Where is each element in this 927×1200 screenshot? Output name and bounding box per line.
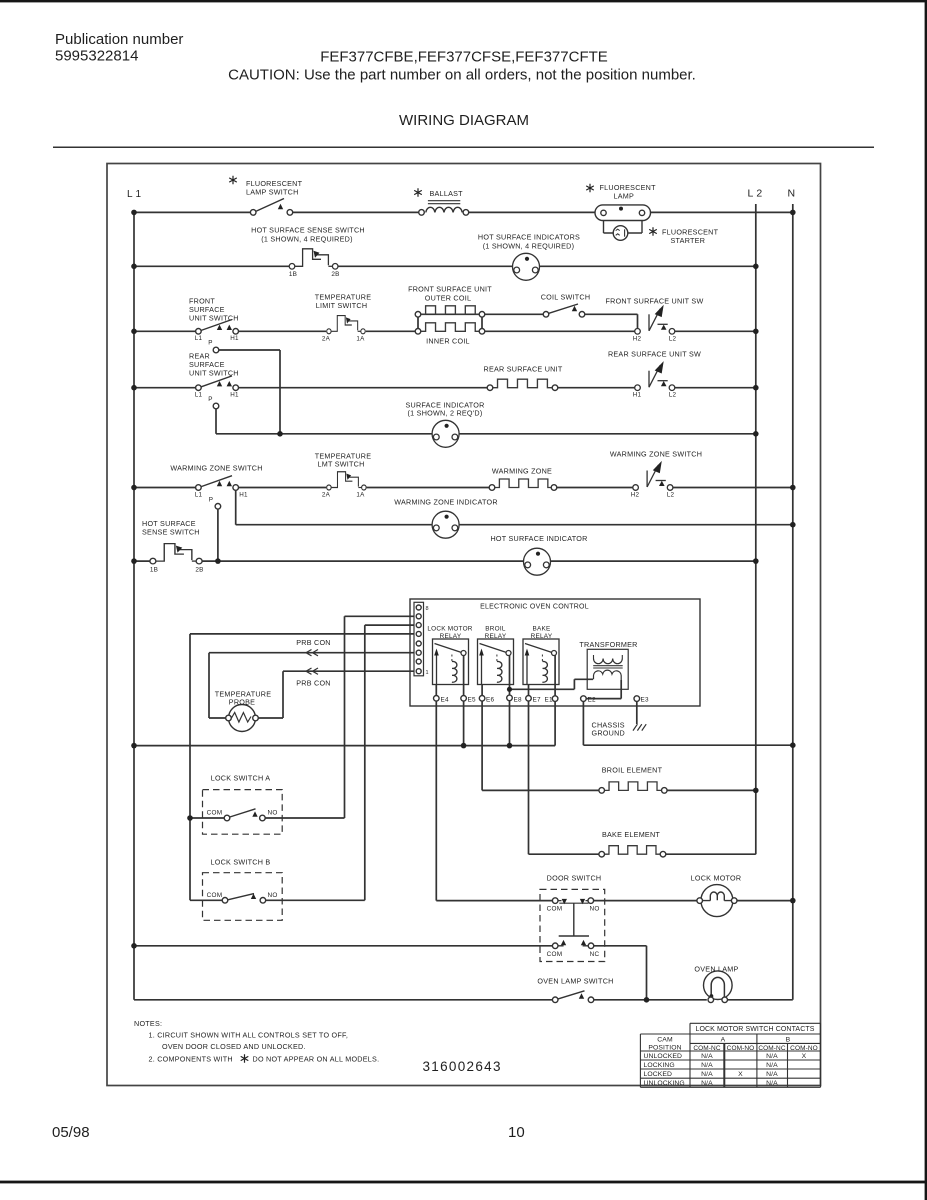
svg-text:LOCK SWITCH A: LOCK SWITCH A — [211, 774, 271, 783]
svg-text:BROIL ELEMENT: BROIL ELEMENT — [602, 766, 663, 775]
svg-text:COIL SWITCH: COIL SWITCH — [541, 293, 591, 302]
svg-text:L 1: L 1 — [127, 189, 141, 200]
svg-text:N/A: N/A — [701, 1053, 713, 1060]
svg-text:REAR SURFACE UNIT: REAR SURFACE UNIT — [484, 365, 563, 374]
svg-text:E8: E8 — [514, 697, 523, 704]
svg-text:E7: E7 — [533, 697, 542, 704]
svg-text:N/A: N/A — [766, 1053, 778, 1060]
svg-text:E3: E3 — [641, 697, 650, 704]
svg-text:RELAY: RELAY — [531, 633, 553, 640]
svg-text:2. COMPONENTS WITH: 2. COMPONENTS WITH — [149, 1055, 233, 1064]
svg-text:OVEN LAMP: OVEN LAMP — [694, 965, 738, 974]
svg-text:UNLOCKING: UNLOCKING — [644, 1080, 685, 1087]
svg-text:COM: COM — [547, 951, 563, 958]
svg-text:NOTES:: NOTES: — [134, 1019, 162, 1028]
svg-text:WARMING ZONE: WARMING ZONE — [492, 467, 552, 476]
svg-text:B: B — [786, 1037, 791, 1044]
svg-text:LIMIT SWITCH: LIMIT SWITCH — [316, 301, 368, 310]
svg-text:WARMING ZONE INDICATOR: WARMING ZONE INDICATOR — [394, 498, 498, 507]
svg-text:PRB CON: PRB CON — [296, 638, 331, 647]
svg-text:OVEN LAMP SWITCH: OVEN LAMP SWITCH — [537, 977, 613, 986]
svg-text:1A: 1A — [356, 492, 365, 499]
svg-text:LMT SWITCH: LMT SWITCH — [317, 460, 364, 469]
svg-text:P: P — [208, 340, 212, 347]
svg-text:BROIL: BROIL — [485, 626, 506, 633]
svg-text:L 2: L 2 — [748, 188, 763, 200]
svg-text:UNIT SWITCH: UNIT SWITCH — [189, 369, 239, 378]
svg-text:LOCK MOTOR: LOCK MOTOR — [691, 874, 742, 883]
svg-text:CAUTION: Use the part number: CAUTION: Use the part number on all orde… — [228, 67, 696, 84]
svg-text:NO: NO — [589, 906, 599, 913]
svg-text:L1: L1 — [195, 492, 203, 499]
svg-text:COM-NC: COM-NC — [693, 1045, 721, 1052]
svg-text:LOCK MOTOR SWITCH CONTACTS: LOCK MOTOR SWITCH CONTACTS — [695, 1026, 814, 1033]
svg-text:INNER COIL: INNER COIL — [426, 337, 470, 346]
svg-text:1B: 1B — [289, 271, 297, 278]
svg-text:L1: L1 — [195, 392, 203, 399]
svg-text:UNIT SWITCH: UNIT SWITCH — [189, 314, 239, 323]
svg-text:H1: H1 — [633, 392, 642, 399]
svg-text:COM: COM — [207, 892, 223, 899]
svg-text:H1: H1 — [239, 492, 248, 499]
svg-text:WARMING ZONE SWITCH: WARMING ZONE SWITCH — [170, 464, 262, 473]
svg-text:DOOR SWITCH: DOOR SWITCH — [547, 874, 602, 883]
svg-text:OUTER COIL: OUTER COIL — [425, 294, 471, 303]
svg-text:BAKE: BAKE — [532, 626, 550, 633]
svg-text:NO: NO — [267, 810, 277, 817]
svg-text:COM: COM — [547, 906, 563, 913]
svg-text:GROUND: GROUND — [592, 729, 625, 738]
svg-text:(1 SHOWN, 2 REQ'D): (1 SHOWN, 2 REQ'D) — [408, 409, 483, 418]
svg-text:PRB CON: PRB CON — [296, 679, 331, 688]
svg-text:X: X — [802, 1053, 807, 1060]
svg-text:N/A: N/A — [766, 1071, 778, 1078]
svg-text:OVEN DOOR CLOSED AND UNLOCKED.: OVEN DOOR CLOSED AND UNLOCKED. — [162, 1042, 306, 1051]
svg-text:H2: H2 — [633, 336, 642, 343]
svg-text:REAR SURFACE UNIT SW: REAR SURFACE UNIT SW — [608, 350, 701, 359]
svg-text:(1 SHOWN, 4 REQUIRED): (1 SHOWN, 4 REQUIRED) — [261, 235, 353, 244]
svg-text:P: P — [208, 396, 212, 403]
svg-text:E2: E2 — [588, 697, 597, 704]
svg-text:E1: E1 — [545, 697, 554, 704]
svg-text:HOT SURFACE INDICATOR: HOT SURFACE INDICATOR — [490, 534, 587, 543]
svg-text:HOT SURFACE SENSE SWITCH: HOT SURFACE SENSE SWITCH — [251, 226, 365, 235]
svg-text:PROBE: PROBE — [229, 698, 255, 707]
svg-text:BALLAST: BALLAST — [430, 189, 464, 198]
svg-text:BAKE ELEMENT: BAKE ELEMENT — [602, 830, 660, 839]
svg-text:LOCKED: LOCKED — [644, 1071, 673, 1078]
svg-text:LOCK SWITCH B: LOCK SWITCH B — [211, 858, 271, 867]
svg-text:E5: E5 — [468, 697, 477, 704]
svg-text:RELAY: RELAY — [440, 633, 462, 640]
svg-text:N/A: N/A — [701, 1071, 713, 1078]
svg-text:(1 SHOWN, 4 REQUIRED): (1 SHOWN, 4 REQUIRED) — [483, 242, 575, 251]
svg-text:TRANSFORMER: TRANSFORMER — [579, 640, 637, 649]
svg-text:E4: E4 — [441, 697, 450, 704]
svg-text:CAM: CAM — [657, 1037, 673, 1044]
svg-text:COM-NC: COM-NC — [758, 1045, 786, 1052]
svg-text:COM-NO: COM-NO — [727, 1045, 755, 1052]
svg-text:STARTER: STARTER — [671, 236, 706, 245]
svg-text:NO: NO — [267, 892, 277, 899]
svg-text:FRONT SURFACE UNIT SW: FRONT SURFACE UNIT SW — [605, 297, 703, 306]
svg-text:DO NOT APPEAR ON ALL MODELS.: DO NOT APPEAR ON ALL MODELS. — [253, 1055, 380, 1064]
svg-text:X: X — [738, 1071, 743, 1078]
svg-text:LOCKING: LOCKING — [644, 1062, 675, 1069]
svg-text:5995322814: 5995322814 — [55, 48, 138, 65]
svg-text:FRONT SURFACE UNIT: FRONT SURFACE UNIT — [408, 285, 492, 294]
svg-text:WIRING DIAGRAM: WIRING DIAGRAM — [399, 112, 529, 129]
svg-text:N/A: N/A — [766, 1080, 778, 1087]
svg-text:N/A: N/A — [766, 1062, 778, 1069]
svg-text:H2: H2 — [631, 492, 640, 499]
svg-text:L2: L2 — [669, 336, 677, 343]
svg-text:LAMP: LAMP — [614, 192, 635, 201]
svg-text:1A: 1A — [356, 336, 365, 343]
svg-text:2B: 2B — [331, 271, 339, 278]
svg-text:10: 10 — [508, 1124, 525, 1141]
svg-text:RELAY: RELAY — [485, 633, 507, 640]
svg-text:Publication number: Publication number — [55, 31, 183, 48]
svg-text:N/A: N/A — [701, 1080, 713, 1087]
svg-text:P: P — [209, 497, 213, 504]
svg-text:05/98: 05/98 — [52, 1124, 90, 1141]
svg-text:A: A — [721, 1037, 726, 1044]
svg-text:N/A: N/A — [701, 1062, 713, 1069]
svg-text:E6: E6 — [486, 697, 495, 704]
svg-text:L1: L1 — [195, 335, 203, 342]
svg-text:2A: 2A — [322, 336, 331, 343]
svg-text:LAMP SWITCH: LAMP SWITCH — [246, 188, 299, 197]
svg-text:2B: 2B — [195, 567, 203, 574]
svg-text:WARMING ZONE SWITCH: WARMING ZONE SWITCH — [610, 450, 702, 459]
svg-text:1: 1 — [426, 670, 429, 676]
svg-text:FEF377CFBE,FEF377CFSE,FEF377CF: FEF377CFBE,FEF377CFSE,FEF377CFTE — [320, 49, 608, 66]
svg-text:UNLOCKED: UNLOCKED — [644, 1053, 683, 1060]
svg-text:H1: H1 — [230, 335, 239, 342]
svg-text:COM-NO: COM-NO — [790, 1045, 818, 1052]
svg-text:1. CIRCUIT SHOWN WITH ALL CONT: 1. CIRCUIT SHOWN WITH ALL CONTROLS SET T… — [149, 1031, 349, 1040]
svg-text:8: 8 — [426, 606, 429, 612]
svg-text:2A: 2A — [322, 492, 331, 499]
svg-text:LOCK MOTOR: LOCK MOTOR — [427, 626, 472, 633]
svg-text:SENSE SWITCH: SENSE SWITCH — [142, 528, 200, 537]
svg-text:316002643: 316002643 — [423, 1059, 502, 1074]
svg-text:L2: L2 — [667, 492, 675, 499]
svg-text:L2: L2 — [669, 392, 677, 399]
svg-text:NC: NC — [590, 951, 600, 958]
svg-text:ELECTRONIC OVEN CONTROL: ELECTRONIC OVEN CONTROL — [480, 604, 589, 611]
svg-text:N: N — [788, 188, 796, 200]
svg-text:1B: 1B — [150, 567, 158, 574]
svg-text:HOT SURFACE INDICATORS: HOT SURFACE INDICATORS — [478, 233, 580, 242]
svg-text:H1: H1 — [230, 392, 239, 399]
svg-text:POSITION: POSITION — [648, 1045, 681, 1052]
svg-text:COM: COM — [207, 810, 223, 817]
